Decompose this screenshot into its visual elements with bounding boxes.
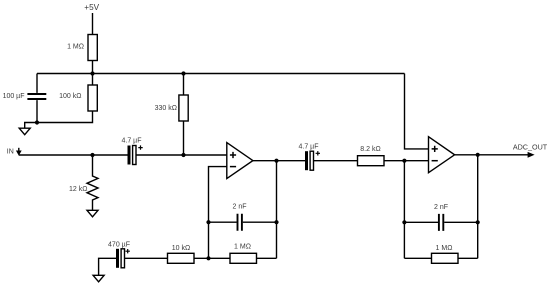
wire U2 output to ADC_OUT <box>455 154 528 156</box>
power +5V <box>84 3 99 35</box>
wire 330kΩ bottom lead <box>183 121 185 155</box>
wire fb2 bottom left lead <box>404 257 431 259</box>
svg-text:2 nF: 2 nF <box>232 204 246 211</box>
wire out1 feedback column down <box>276 161 278 259</box>
ground G2 <box>87 210 98 217</box>
wire 8.2kΩ to U2 − input <box>384 160 429 162</box>
wire U2 feedback column down <box>403 161 405 259</box>
node junction out1/feedback <box>274 159 278 163</box>
wire 330kΩ top lead <box>183 74 185 96</box>
resistor 8.2 kΩ <box>358 146 385 166</box>
wire 1MΩ bottom to 100kΩ top through rail junction <box>92 61 94 86</box>
svg-text:470 µF: 470 µF <box>108 241 130 248</box>
svg-text:+5V: +5V <box>84 3 99 12</box>
wire 2nF C5 right lead <box>444 221 478 223</box>
capacitor 100 µF <box>3 93 47 100</box>
wire to ground G1 <box>25 123 37 129</box>
wire out2 feedback column <box>477 155 479 258</box>
node junction fb1 right 2nF <box>274 220 278 224</box>
node junction rail/330kΩ <box>181 71 185 75</box>
capacitor 4.7 µF C1 <box>122 138 143 165</box>
resistor 12 kΩ (zigzag) <box>69 155 98 210</box>
resistor 100 kΩ <box>59 85 97 111</box>
node junction cap/resistor/ground <box>35 120 39 124</box>
svg-text:100 kΩ: 100 kΩ <box>59 93 81 100</box>
svg-text:330 kΩ: 330 kΩ <box>155 105 177 112</box>
svg-text:4.7 µF: 4.7 µF <box>122 138 142 145</box>
wire 1MΩ fb2 to right column <box>458 257 478 259</box>
svg-text:ADC_OUT: ADC_OUT <box>513 142 548 151</box>
svg-text:8.2 kΩ: 8.2 kΩ <box>360 146 380 153</box>
wire rail corner down to 100µF <box>36 74 38 93</box>
svg-text:IN: IN <box>7 149 14 156</box>
op-amp U1 <box>227 143 253 179</box>
svg-text:2 nF: 2 nF <box>434 204 448 211</box>
ground G3 <box>93 275 104 282</box>
svg-text:1 MΩ: 1 MΩ <box>234 244 251 251</box>
svg-text:100 µF: 100 µF <box>3 93 25 100</box>
wire top rail <box>37 73 405 75</box>
op-amp U2 <box>429 137 455 173</box>
node junction main/12kΩ <box>90 153 94 157</box>
node junction U2 − / feedback <box>402 159 406 163</box>
wire C3 left to ground <box>99 258 116 275</box>
capacitor 2 nF C5 <box>434 204 448 231</box>
node junction main/330kΩ <box>181 153 185 157</box>
resistor 10 kΩ <box>168 245 195 263</box>
node junction fb2 left 2nF <box>402 220 406 224</box>
wire 2nF C2 right lead <box>243 221 277 223</box>
wire rail down to U2 + input <box>405 74 429 149</box>
resistor 1 MΩ (top) <box>67 35 97 61</box>
node junction out2/feedback <box>476 153 480 157</box>
wire 100µF bottom lead <box>36 100 38 122</box>
svg-text:1 MΩ: 1 MΩ <box>436 245 453 252</box>
wire C1 to op-amp U1 + <box>136 154 227 156</box>
wire 100kΩ bottom L to junction <box>37 111 93 123</box>
capacitor 4.7 µF C4 <box>299 143 321 170</box>
resistor 1 MΩ (fb2) <box>432 245 459 263</box>
resistor 1 MΩ (fb1) <box>230 244 257 264</box>
node junction fb1 bottom <box>206 256 210 260</box>
capacitor 2 nF C2 <box>232 204 246 231</box>
port IN <box>7 148 22 156</box>
svg-text:10 kΩ: 10 kΩ <box>172 245 190 252</box>
wire C4 to 8.2kΩ <box>314 160 358 162</box>
wire 2nF C2 left lead <box>209 221 237 223</box>
resistor 330 kΩ <box>155 95 189 121</box>
wire U1 output <box>253 160 305 162</box>
capacitor 470 µF C3 <box>108 241 130 267</box>
node junction rail/1MΩ <box>90 71 94 75</box>
wire C3 to 10kΩ <box>125 257 168 259</box>
port ADC_OUT <box>513 142 548 157</box>
svg-text:1 MΩ: 1 MΩ <box>67 43 84 50</box>
wire U1 − input to feedback column <box>209 167 227 259</box>
svg-text:4.7 µF: 4.7 µF <box>299 143 319 150</box>
ground G1 <box>19 128 30 135</box>
wire 1MΩ fb1 to right column <box>257 257 277 259</box>
wire IN to cap C1 <box>19 154 128 156</box>
svg-text:12 kΩ: 12 kΩ <box>69 186 87 193</box>
wire 2nF C5 left lead <box>404 221 438 223</box>
node junction fb1 left 2nF <box>206 220 210 224</box>
wire 10kΩ to node <box>194 257 230 259</box>
node junction fb2 right 2nF <box>476 220 480 224</box>
